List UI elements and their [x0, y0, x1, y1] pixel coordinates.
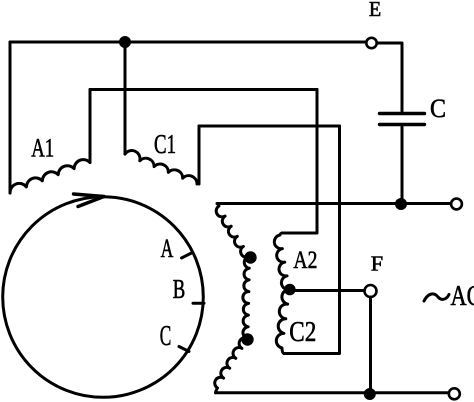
wire left vertical to A1 — [9, 42, 12, 193]
wire third rail — [199, 125, 340, 128]
junction dot top — [119, 36, 131, 48]
svg-text:C: C — [160, 321, 172, 352]
wire bottom rail — [216, 391, 449, 394]
svg-text:B: B — [173, 274, 186, 304]
svg-text:A: A — [161, 234, 174, 263]
terminal circle bottom right — [449, 388, 460, 399]
svg-text:A2: A2 — [293, 247, 317, 274]
rotation arrow — [74, 194, 105, 207]
svg-text:C1: C1 — [154, 129, 176, 159]
wire capacitor down to junction — [401, 127, 404, 204]
terminal F — [365, 285, 377, 297]
wire rail y204 — [217, 202, 451, 205]
wire top rail — [10, 41, 366, 44]
tap dot between A2 and C2 — [284, 284, 296, 296]
svg-text:A1: A1 — [31, 134, 54, 163]
wire second rail — [90, 88, 317, 91]
capacitor C plate top — [380, 112, 425, 115]
tick C — [179, 347, 189, 352]
coil main winding (tall) — [215, 204, 250, 393]
wire A1 right vertical — [89, 90, 92, 163]
svg-text:C2: C2 — [289, 317, 316, 348]
terminal E — [366, 38, 376, 48]
wire vertical x317 down to A2 — [282, 90, 317, 234]
coil A2 — [274, 233, 289, 290]
wire E to capacitor corner — [377, 43, 402, 111]
wire C1 right vertical — [198, 126, 201, 184]
svg-text:E: E — [369, 0, 381, 21]
capacitor C plate bottom — [380, 123, 425, 126]
terminal circle right mid — [451, 199, 462, 210]
tap dot lower on main winding — [241, 333, 253, 345]
AC source tilde — [424, 294, 449, 301]
junction dot bottom — [364, 388, 376, 400]
tick A — [182, 253, 192, 258]
tick B — [193, 302, 204, 305]
wire F down to bottom rail — [369, 297, 372, 394]
wire C1 left vertical from junction — [124, 42, 127, 154]
junction dot mid right — [395, 198, 407, 210]
coil C2 — [276, 289, 289, 353]
coil C1 — [125, 151, 197, 184]
svg-text:F: F — [371, 252, 383, 276]
svg-text:AC: AC — [451, 281, 474, 312]
rotor circle — [3, 197, 204, 398]
wire tap to F — [290, 289, 365, 292]
wire vertical x339 down to C2 — [284, 126, 340, 354]
tap dot upper on main winding — [244, 251, 256, 263]
coil A1 — [10, 160, 90, 193]
svg-text:C: C — [430, 94, 446, 123]
